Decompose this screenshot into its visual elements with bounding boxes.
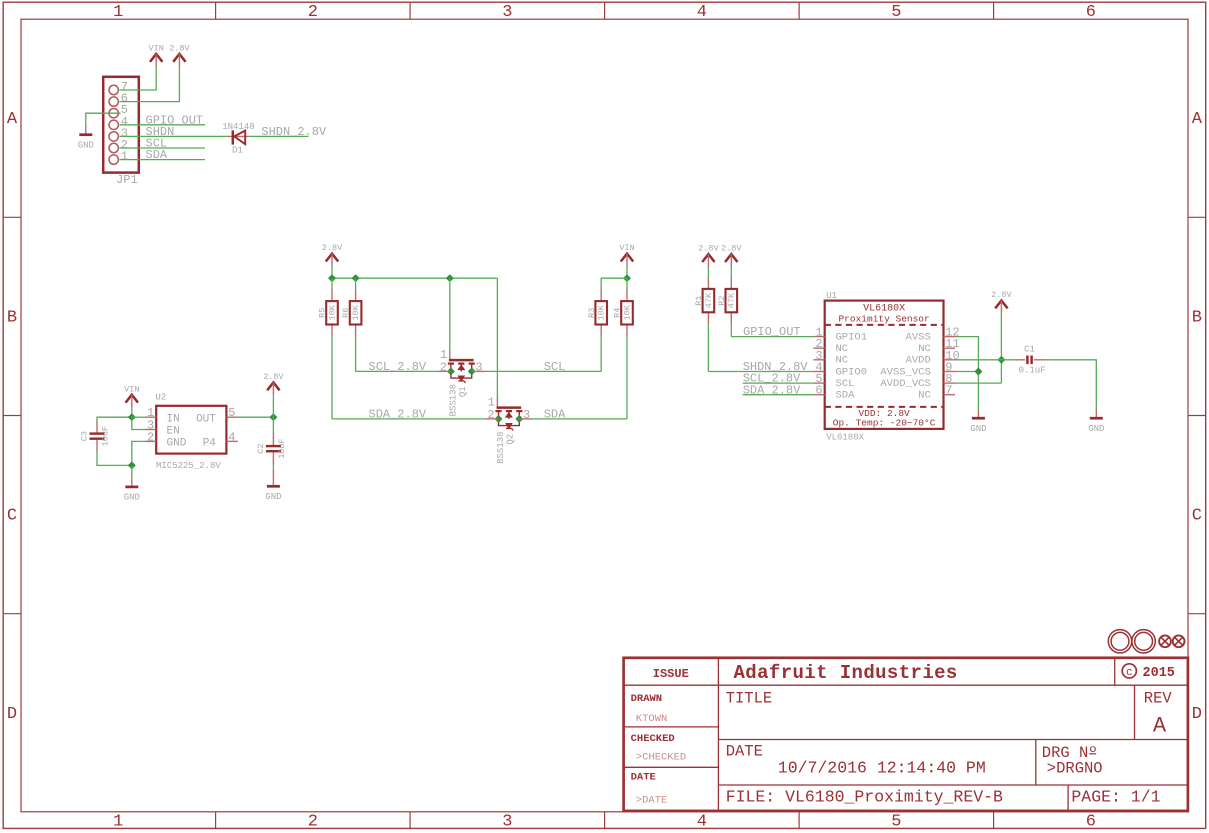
svg-text:4: 4: [228, 430, 235, 444]
svg-text:C1: C1: [1024, 344, 1035, 354]
node U2 ground junction: [129, 462, 135, 468]
IC U1 VL6180X body: [825, 301, 944, 429]
wire VIN down to node: [626, 267, 628, 279]
svg-text:c: c: [1126, 667, 1133, 679]
frame column ticks bottom: [215, 812, 217, 829]
svg-text:GND: GND: [167, 438, 187, 450]
svg-text:VIN: VIN: [619, 243, 634, 253]
svg-text:47K: 47K: [727, 292, 737, 308]
svg-text:1: 1: [121, 150, 128, 164]
wire U2 pin2 GND down to gnd node: [132, 441, 145, 465]
frame row ticks right: [1188, 216, 1206, 218]
title block PAGE cell divider: [1067, 785, 1069, 811]
svg-text:VIN: VIN: [124, 384, 139, 394]
svg-text:EN: EN: [167, 426, 180, 438]
node AVSS rail junction: [975, 368, 981, 374]
node bus Q1 gate: [447, 275, 453, 281]
svg-text:SCL: SCL: [836, 378, 855, 390]
U2 pin stubs right: [226, 416, 238, 418]
ground GND (C1): [1095, 410, 1097, 419]
wire net SCL from JP1 pin2: [120, 147, 206, 149]
svg-text:Adafruit Industries: Adafruit Industries: [734, 662, 958, 684]
svg-text:10K: 10K: [597, 304, 607, 320]
title block left column divider: [717, 658, 719, 811]
resistor R6 10K: [355, 290, 357, 302]
svg-text:AVDD_VCS: AVDD_VCS: [880, 378, 930, 390]
svg-text:R3: R3: [587, 308, 597, 318]
svg-text:PAGE: 1/1: PAGE: 1/1: [1071, 788, 1160, 807]
svg-text:Proximity Sensor: Proximity Sensor: [838, 313, 929, 324]
svg-text:3: 3: [475, 360, 482, 374]
wire 2.8V to R1: [707, 267, 709, 277]
wire node up to 2.8V supply: [272, 396, 274, 418]
svg-text:GND: GND: [970, 424, 986, 434]
svg-text:NC: NC: [918, 390, 931, 402]
svg-text:3: 3: [502, 813, 512, 832]
svg-text:R6: R6: [341, 308, 351, 318]
wire 2.8V down to bus: [331, 267, 333, 279]
svg-text:OUT: OUT: [196, 413, 216, 425]
wire JP1 pin6 to 2.8V: [120, 66, 180, 101]
svg-text:P4: P4: [203, 438, 217, 450]
wire U1 pin9 AVSS_VCS to rail: [955, 371, 978, 373]
svg-text:R1: R1: [694, 295, 704, 305]
svg-text:2: 2: [147, 430, 154, 444]
wire U2 OUT to 2.8V node: [238, 416, 274, 418]
wire net SHDN from JP1 pin3 to D1: [120, 135, 228, 137]
svg-text:GPIO1: GPIO1: [836, 331, 868, 343]
svg-text:2.8V: 2.8V: [263, 372, 284, 382]
svg-text:6: 6: [1086, 813, 1096, 832]
svg-text:D: D: [7, 705, 17, 724]
svg-text:>DRGNO: >DRGNO: [1047, 760, 1103, 778]
svg-text:SDA_2.8V: SDA_2.8V: [369, 408, 427, 422]
ground GND (U1 AVSS): [977, 410, 979, 419]
OSHW logo circle-X right: [1173, 635, 1185, 647]
svg-text:3: 3: [502, 3, 512, 22]
supply 2.8V (JP1): [173, 54, 185, 62]
svg-text:GND: GND: [265, 492, 281, 502]
wire net GPIO_OUT to U1 pin1: [731, 336, 813, 338]
svg-text:NC: NC: [836, 343, 849, 355]
svg-text:DATE: DATE: [631, 772, 656, 784]
svg-text:SDA: SDA: [836, 390, 856, 402]
svg-text:NC: NC: [918, 343, 931, 355]
U2 pin stubs left: [145, 416, 156, 418]
svg-text:BSS138: BSS138: [448, 384, 458, 416]
svg-text:SDA_2.8V: SDA_2.8V: [743, 383, 801, 397]
svg-text:1: 1: [113, 813, 123, 832]
node AVDD junction: [998, 357, 1004, 363]
svg-text:2015: 2015: [1143, 666, 1175, 681]
svg-text:KTOWN: KTOWN: [636, 713, 668, 725]
voltage regulator U2 MIC5225 body: [156, 406, 226, 454]
svg-text:2: 2: [308, 3, 318, 22]
svg-text:2.8V: 2.8V: [169, 44, 190, 54]
resistor R3 10K: [600, 290, 602, 302]
svg-text:2: 2: [308, 813, 318, 832]
wire node to C3 and down: [97, 417, 132, 420]
wire R4 down to SDA: [626, 336, 628, 419]
wire JP1 pin5 to GND: [86, 113, 121, 126]
svg-text:REV: REV: [1144, 690, 1173, 708]
node U2 input junction: [129, 414, 135, 420]
resistor R5 10K: [331, 290, 333, 302]
svg-text:1N4148: 1N4148: [222, 122, 254, 132]
svg-text:AVDD: AVDD: [906, 355, 931, 367]
svg-text:SDA: SDA: [544, 408, 566, 422]
wire VIN node to R3: [601, 278, 627, 289]
svg-text:R2: R2: [717, 295, 727, 305]
connector JP1 body: [103, 77, 139, 173]
svg-text:C: C: [7, 507, 17, 526]
svg-text:1: 1: [113, 3, 123, 22]
svg-text:B: B: [1192, 309, 1202, 328]
wire C2 bottom to ground: [272, 464, 274, 470]
svg-text:4: 4: [697, 813, 707, 832]
svg-text:ISSUE: ISSUE: [653, 667, 689, 681]
svg-text:2.8V: 2.8V: [721, 244, 742, 254]
svg-text:2.8V: 2.8V: [698, 244, 719, 254]
svg-text:B: B: [7, 309, 17, 328]
svg-text:0.1uF: 0.1uF: [1019, 365, 1046, 375]
svg-text:A: A: [7, 110, 18, 129]
svg-text:BSS138: BSS138: [496, 431, 506, 463]
wire net SCL_2.8V to Q1: [356, 370, 439, 372]
resistor R4 10K: [626, 290, 628, 302]
svg-text:SCL_2.8V: SCL_2.8V: [369, 360, 427, 374]
svg-text:NC: NC: [836, 355, 849, 367]
svg-text:A: A: [1153, 713, 1167, 738]
wire node to U2 pin1 IN: [132, 416, 145, 418]
svg-text:MIC5225_2.8V: MIC5225_2.8V: [156, 461, 221, 471]
svg-text:FILE: VL6180_Proximity_REV-B: FILE: VL6180_Proximity_REV-B: [726, 788, 1003, 807]
title block line below KTOWN: [624, 726, 719, 728]
svg-text:>CHECKED: >CHECKED: [636, 751, 686, 763]
wire U1 pin12 AVSS to ground rail: [955, 337, 978, 410]
wire bus to R5: [331, 278, 333, 289]
svg-text:4: 4: [697, 3, 707, 22]
svg-text:10K: 10K: [351, 304, 361, 320]
svg-text:D1: D1: [232, 146, 243, 156]
supply 2.8V (R2): [725, 254, 737, 262]
title block REV cell divider: [1134, 685, 1136, 739]
wire net SDA from Q2 to R4: [531, 418, 627, 420]
svg-text:7: 7: [945, 384, 952, 398]
node bus R6: [352, 275, 358, 281]
U1 header dashed separator: [825, 324, 944, 326]
transistor Q1 BSS138: [449, 349, 451, 359]
svg-text:10K: 10K: [327, 304, 337, 320]
wire R3 down to SCL: [600, 336, 602, 371]
ground GND (U2): [131, 478, 133, 487]
svg-text:10uF: 10uF: [277, 438, 287, 458]
capacitor C2 10uF: [272, 433, 274, 445]
wire gnd node down: [131, 465, 133, 478]
wire JP1 pin7 to VIN: [120, 66, 157, 90]
wire net SDA_2.8V to U1 pin6: [743, 394, 814, 396]
svg-text:SHDN_2.8V: SHDN_2.8V: [261, 125, 327, 139]
svg-text:C2: C2: [256, 443, 266, 453]
svg-text:AVSS_VCS: AVSS_VCS: [880, 366, 930, 378]
wire node down to U2 pin3 EN: [132, 417, 145, 429]
wire net SCL_2.8V to U1 pin5: [743, 382, 814, 384]
node U2 output junction: [270, 414, 276, 420]
title block outer border: [624, 658, 1188, 811]
svg-text:10uF: 10uF: [101, 426, 111, 446]
wire VIN vertical to node: [131, 408, 133, 418]
svg-text:5: 5: [228, 406, 235, 420]
svg-text:VIN: VIN: [149, 44, 164, 54]
svg-text:5: 5: [891, 3, 901, 22]
svg-text:GND: GND: [1088, 424, 1104, 434]
Adafruit logo ring left: [1108, 630, 1131, 653]
svg-text:6: 6: [815, 384, 822, 398]
svg-text:GPIO0: GPIO0: [836, 366, 868, 378]
svg-text:C3: C3: [80, 431, 90, 441]
svg-text:Q1: Q1: [458, 386, 468, 397]
capacitor C1 0.1uF: [1014, 359, 1025, 361]
transistor Q2 BSS138: [496, 397, 498, 407]
svg-text:SCL: SCL: [544, 360, 566, 374]
svg-text:Op. Temp: -20~70°C: Op. Temp: -20~70°C: [833, 417, 936, 428]
wire net SCL from Q1 to R3: [484, 370, 602, 372]
title text copyright 2015: [1122, 664, 1136, 678]
svg-text:SDA: SDA: [146, 148, 168, 162]
wire net SDA from JP1 pin1: [120, 159, 206, 161]
Adafruit logo ring right: [1132, 630, 1155, 653]
svg-text:IN: IN: [167, 413, 180, 425]
svg-text:2: 2: [440, 360, 447, 374]
svg-text:CHECKED: CHECKED: [631, 733, 675, 745]
wire node down to C2: [272, 417, 274, 433]
wire R6 down to SCL_2.8V: [355, 336, 357, 371]
wire 2.8V to R2: [730, 267, 732, 277]
svg-text:JP1: JP1: [116, 173, 138, 187]
title block copyright cell divider: [1114, 658, 1116, 685]
wire net SDA_2.8V to Q2: [332, 418, 486, 420]
wire bus down to Q1 gate: [449, 278, 451, 351]
svg-text:VL6180X: VL6180X: [826, 432, 864, 442]
wire R1 down to SHDN_2.8V wire: [707, 324, 709, 372]
U1 pin stubs left: [813, 336, 824, 338]
resistor R1 47K: [707, 277, 709, 289]
svg-text:DATE: DATE: [726, 743, 763, 761]
wire R2 down to GPIO_OUT wire: [730, 324, 732, 337]
wire net SHDN_2.8V from D1: [250, 135, 309, 137]
wire 2.8V gate bus: [332, 277, 497, 279]
wire bus down to Q2 gate: [496, 278, 498, 398]
capacitor C3 10uF: [96, 420, 98, 432]
resistor R2 47K: [730, 277, 732, 289]
U1 pin stubs right: [944, 336, 956, 338]
OSHW logo circle-X left: [1159, 635, 1171, 647]
frame row ticks left: [3, 216, 21, 218]
wire U1 pin8 AVDD_VCS to 2.8V riser: [955, 382, 1001, 384]
svg-text:2: 2: [487, 408, 494, 422]
title block DRG cell divider: [1035, 740, 1037, 786]
node VIN R4: [624, 275, 630, 281]
wire 2.8V down through AVDD to pin8: [1000, 313, 1002, 383]
svg-text:6: 6: [1086, 3, 1096, 22]
supply 2.8V (U1 AVDD): [995, 301, 1007, 309]
svg-text:R4: R4: [613, 308, 623, 318]
svg-text:>DATE: >DATE: [636, 794, 668, 806]
supply 2.8V (R1): [702, 254, 714, 262]
supply VIN (JP1): [150, 54, 162, 62]
svg-text:Q2: Q2: [505, 434, 515, 445]
svg-text:U2: U2: [155, 393, 166, 403]
frame column ticks top: [215, 2, 217, 19]
ground GND (JP1): [85, 126, 87, 135]
wire net GPIO_OUT from JP1 pin4: [120, 124, 206, 126]
wire C3 bottom to gnd node: [97, 452, 132, 466]
svg-text:TITLE: TITLE: [726, 689, 773, 707]
U1 bottom dashed separator: [825, 406, 944, 408]
diode D1 1N4148: [228, 135, 250, 137]
svg-text:2.8V: 2.8V: [322, 243, 343, 253]
svg-text:AVSS: AVSS: [906, 331, 931, 343]
wire U1 pin10 AVDD to C1: [955, 359, 1014, 361]
svg-text:2.8V: 2.8V: [991, 290, 1012, 300]
title block line below DATE row: [718, 784, 1188, 786]
svg-text:U1: U1: [826, 291, 837, 301]
ground GND (C2): [272, 470, 274, 478]
svg-text:5: 5: [891, 813, 901, 832]
svg-text:3: 3: [523, 408, 530, 422]
svg-text:C: C: [1192, 507, 1202, 526]
wire R5 down to SDA_2.8V: [331, 336, 333, 419]
svg-text:GND: GND: [78, 141, 94, 151]
svg-text:10K: 10K: [622, 304, 632, 320]
svg-text:10/7/2016 12:14:40 PM: 10/7/2016 12:14:40 PM: [778, 759, 986, 778]
title block line below TITLE row: [718, 739, 1188, 741]
svg-text:R5: R5: [318, 308, 328, 318]
wire net SHDN_2.8V to U1 pin4: [708, 371, 813, 373]
wire VIN node to R4: [626, 278, 628, 289]
svg-text:GPIO_OUT: GPIO_OUT: [743, 325, 801, 339]
title block line below CHECKED: [624, 766, 719, 768]
svg-text:47K: 47K: [704, 292, 714, 308]
svg-text:GND: GND: [124, 493, 140, 503]
supply VIN (level shifter): [621, 254, 633, 262]
wire C1 to ground right: [1046, 360, 1097, 410]
supply 2.8V (U2 out): [267, 382, 279, 390]
svg-text:D: D: [1192, 705, 1202, 724]
svg-text:A: A: [1192, 110, 1203, 129]
title block row line below ISSUE: [624, 684, 1188, 686]
svg-text:DRAWN: DRAWN: [631, 693, 663, 705]
wire bus to R6: [355, 278, 357, 289]
supply VIN (U2): [126, 395, 138, 403]
supply 2.8V (level shifter): [326, 254, 338, 262]
JP1 pin circles 7..1: [109, 85, 118, 94]
node bus R5: [329, 275, 335, 281]
